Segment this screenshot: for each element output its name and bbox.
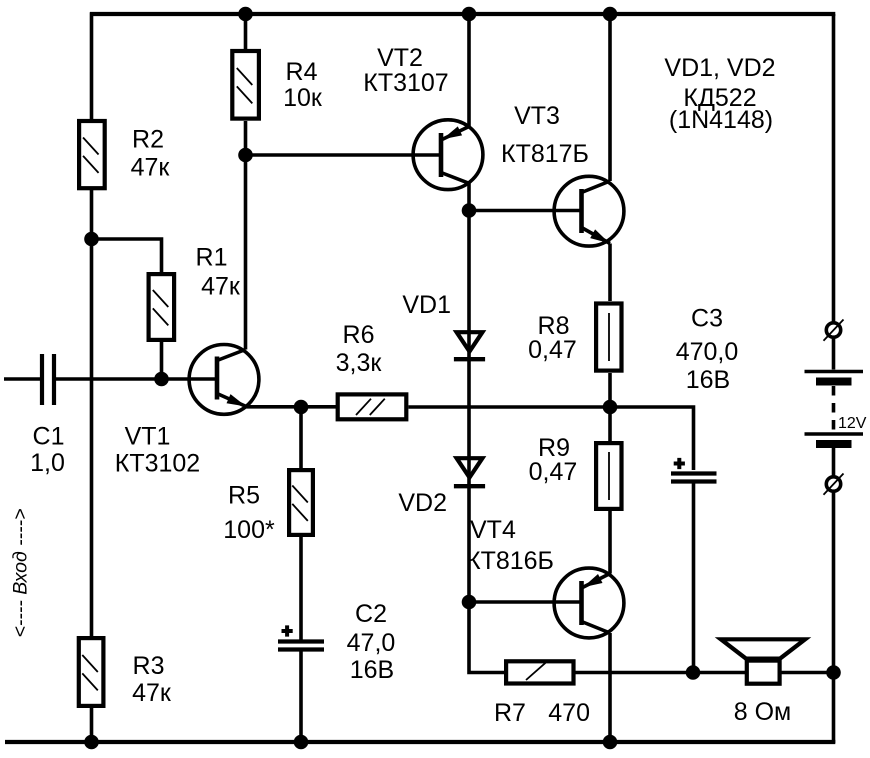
svg-text:470: 470 [548, 699, 590, 727]
wire: node A right and down to R1 [90, 239, 162, 272]
wire: VT4 base node down and right to R7 [469, 602, 504, 673]
label R1 47к [196, 244, 241, 301]
wire: VD2 to VT4 base node [467, 484, 471, 602]
wire: R8 to output node [608, 373, 612, 407]
transistor VT3 (NPN КТ817Б) [554, 176, 624, 246]
node A junction dot [84, 232, 99, 247]
label VT2 КТ3107 [363, 44, 448, 97]
diode VD1 [454, 332, 485, 359]
label R5 100* [223, 482, 275, 545]
wire: VT4 base wire [469, 600, 582, 604]
svg-text:(1N4148): (1N4148) [669, 106, 773, 134]
transistor VT2 (PNP KT3107) [413, 120, 483, 190]
node: R4/VT2 base junction dot [238, 148, 253, 163]
svg-text:КТ3107: КТ3107 [363, 69, 448, 97]
svg-text:47к: 47к [201, 273, 241, 301]
label VD2 [398, 489, 447, 517]
node: ground rail dot at VT4 column [603, 735, 618, 750]
wire: VT3 collector to top rail [608, 12, 612, 181]
resistor R6 [338, 394, 407, 419]
resistor R3 [79, 638, 104, 706]
svg-text:16В: 16В [350, 656, 394, 684]
node: emitter node dot [294, 400, 309, 415]
label VD1, VD2 КД522 (1N4148) [664, 54, 775, 134]
svg-text:VD2: VD2 [398, 489, 447, 517]
svg-text:16В: 16В [686, 366, 730, 394]
wire: node down to VD1 [467, 211, 471, 361]
node: C3/speaker junction dot [686, 665, 701, 680]
label C3 470,0 16В [676, 305, 739, 395]
label VT1 КТ3102 [115, 423, 200, 478]
svg-text:3,3к: 3,3к [336, 349, 383, 377]
wire: R2 bottom to node A [90, 190, 94, 239]
resistor R9 [596, 443, 621, 509]
node: top rail dot at VT2 column [462, 7, 477, 22]
wire: VT4 collector to ground rail [608, 633, 612, 743]
label R6 3,3к [336, 321, 383, 377]
wire: R7 right to speaker [576, 671, 747, 675]
svg-text:КТ816Б: КТ816Б [466, 547, 554, 575]
wire: bottom ground rail [5, 740, 835, 744]
svg-text:R3: R3 [133, 652, 165, 680]
wire: node down to R5 [299, 407, 303, 468]
battery GB1 12V [805, 372, 864, 445]
label 12V [838, 415, 867, 432]
label 8 Ом [734, 698, 791, 726]
svg-text:0,47: 0,47 [528, 336, 577, 364]
svg-text:C1: C1 [33, 423, 65, 451]
wire: VT3 emitter down to R8 [608, 244, 612, 302]
node: base node dot [154, 372, 169, 387]
wire: battery cell 2 to terminal [832, 448, 836, 477]
capacitor C2 (polarized) [278, 625, 324, 649]
node: R3 ground junction dot [84, 735, 99, 750]
label C1 1,0 [30, 423, 65, 478]
wire: top rail corner down to battery terminal [832, 14, 836, 323]
resistor R1 [149, 274, 175, 340]
transistor VT1 (NPN KT3102) [189, 345, 259, 415]
svg-text:VT2: VT2 [377, 44, 423, 72]
wire: node A down to R3 (crosses input line) [90, 239, 94, 636]
capacitor C1 [42, 354, 54, 405]
node: C2 ground junction dot [294, 735, 309, 750]
node: top rail dot at R4 [238, 7, 253, 22]
wire: VT1 emitter to node, to R6 [246, 405, 336, 409]
svg-text:100*: 100* [223, 516, 275, 544]
node: battery column dot at speaker [826, 665, 841, 680]
svg-text:R2: R2 [132, 126, 164, 154]
svg-text:VT4: VT4 [470, 516, 516, 544]
svg-text:C2: C2 [355, 600, 387, 628]
wire: R4 top lead to rail [244, 12, 248, 49]
wire: VT1 collector column up to R4 node [244, 155, 248, 350]
svg-text:R4: R4 [286, 58, 318, 86]
svg-text:8 Ом: 8 Ом [734, 698, 791, 726]
wire: R9 to VT4 emitter [608, 511, 612, 574]
wire: C1 to VT1 base [56, 377, 217, 381]
wire: VT2 base wire [246, 153, 442, 157]
resistor R7 [506, 661, 573, 683]
svg-text:VT1: VT1 [125, 423, 171, 451]
wire: VT2 collector to VT3 base node [467, 183, 471, 211]
node: VT3 base node dot [462, 203, 477, 218]
wire: C2 to ground rail [299, 651, 303, 743]
wire: VD1 to VD2 [467, 357, 471, 487]
svg-text:R7: R7 [494, 699, 526, 727]
wire: VT3 base wire [469, 209, 582, 213]
svg-text:0,47: 0,47 [529, 458, 578, 486]
label R7 470 [494, 699, 590, 727]
label R8 0,47 [528, 312, 577, 364]
svg-text:КТ817Б: КТ817Б [501, 140, 589, 168]
wire: output node to R9 [608, 407, 612, 441]
wire: left column, rail to R2 [90, 12, 94, 119]
svg-text:R5: R5 [228, 482, 260, 510]
wire: terminal down to speaker node and ground corner [832, 492, 836, 744]
resistor R4 [232, 51, 259, 119]
label VT4 КТ816Б [466, 516, 554, 575]
wire: speaker right to battery column [780, 671, 834, 675]
node: VT4 base node dot [462, 595, 477, 610]
svg-text:VD1: VD1 [402, 291, 451, 319]
svg-text:C3: C3 [691, 305, 723, 333]
svg-text:КТ3102: КТ3102 [115, 450, 200, 478]
label C2 47,0 16В [347, 600, 396, 684]
node: output node dot [603, 400, 618, 415]
label R3 47к [132, 652, 172, 707]
node: top rail dot at VT3 column [603, 7, 618, 22]
label VD1 [402, 291, 451, 319]
svg-text:R6: R6 [343, 321, 375, 349]
resistor R8 [596, 304, 621, 371]
svg-text:VT3: VT3 [514, 102, 560, 130]
label R4 10к [283, 58, 323, 112]
label Вход (input, rotated) [10, 508, 32, 637]
svg-text:VD1, VD2: VD1, VD2 [664, 54, 775, 82]
terminal: battery - clamp (circle with slash) [824, 474, 844, 495]
wire: input lead [4, 377, 40, 381]
wire: terminal to battery cell 1 [832, 338, 836, 370]
wire: C3 bottom to speaker node [692, 484, 696, 673]
capacitor C3 (polarized) [671, 458, 717, 482]
resistor R2 [79, 121, 105, 188]
svg-text:10к: 10к [283, 84, 323, 112]
wire: R4 bottom lead [244, 121, 248, 155]
label R9 0,47 [529, 434, 578, 486]
wire: R6 to output node to C3 top [409, 407, 694, 470]
svg-text:1,0: 1,0 [30, 449, 65, 477]
svg-text:R1: R1 [196, 244, 228, 272]
label R2 47к [131, 126, 171, 182]
wire: R1 bottom to base node [160, 342, 164, 379]
speaker 8 Ом [721, 639, 805, 683]
terminal: battery + clamp (circle with slash) [824, 320, 844, 341]
wire: R3 to ground rail [90, 708, 94, 743]
resistor R5 [289, 470, 313, 535]
label VT3 КТ817Б [501, 102, 589, 168]
svg-text:47к: 47к [131, 154, 171, 182]
wire: top rail to VT2 emitter [467, 12, 471, 126]
wire: +12V top rail [90, 12, 835, 16]
transistor VT4 (PNP КТ816Б) [554, 568, 624, 638]
wire: R5 to C2 [299, 537, 303, 640]
svg-text:47,0: 47,0 [347, 629, 396, 657]
svg-text:<---- Вход ---->: <---- Вход ----> [10, 508, 32, 637]
svg-text:12V: 12V [838, 415, 867, 432]
svg-text:47к: 47к [132, 679, 172, 707]
diode VD2 [454, 458, 485, 486]
svg-text:470,0: 470,0 [676, 338, 739, 366]
